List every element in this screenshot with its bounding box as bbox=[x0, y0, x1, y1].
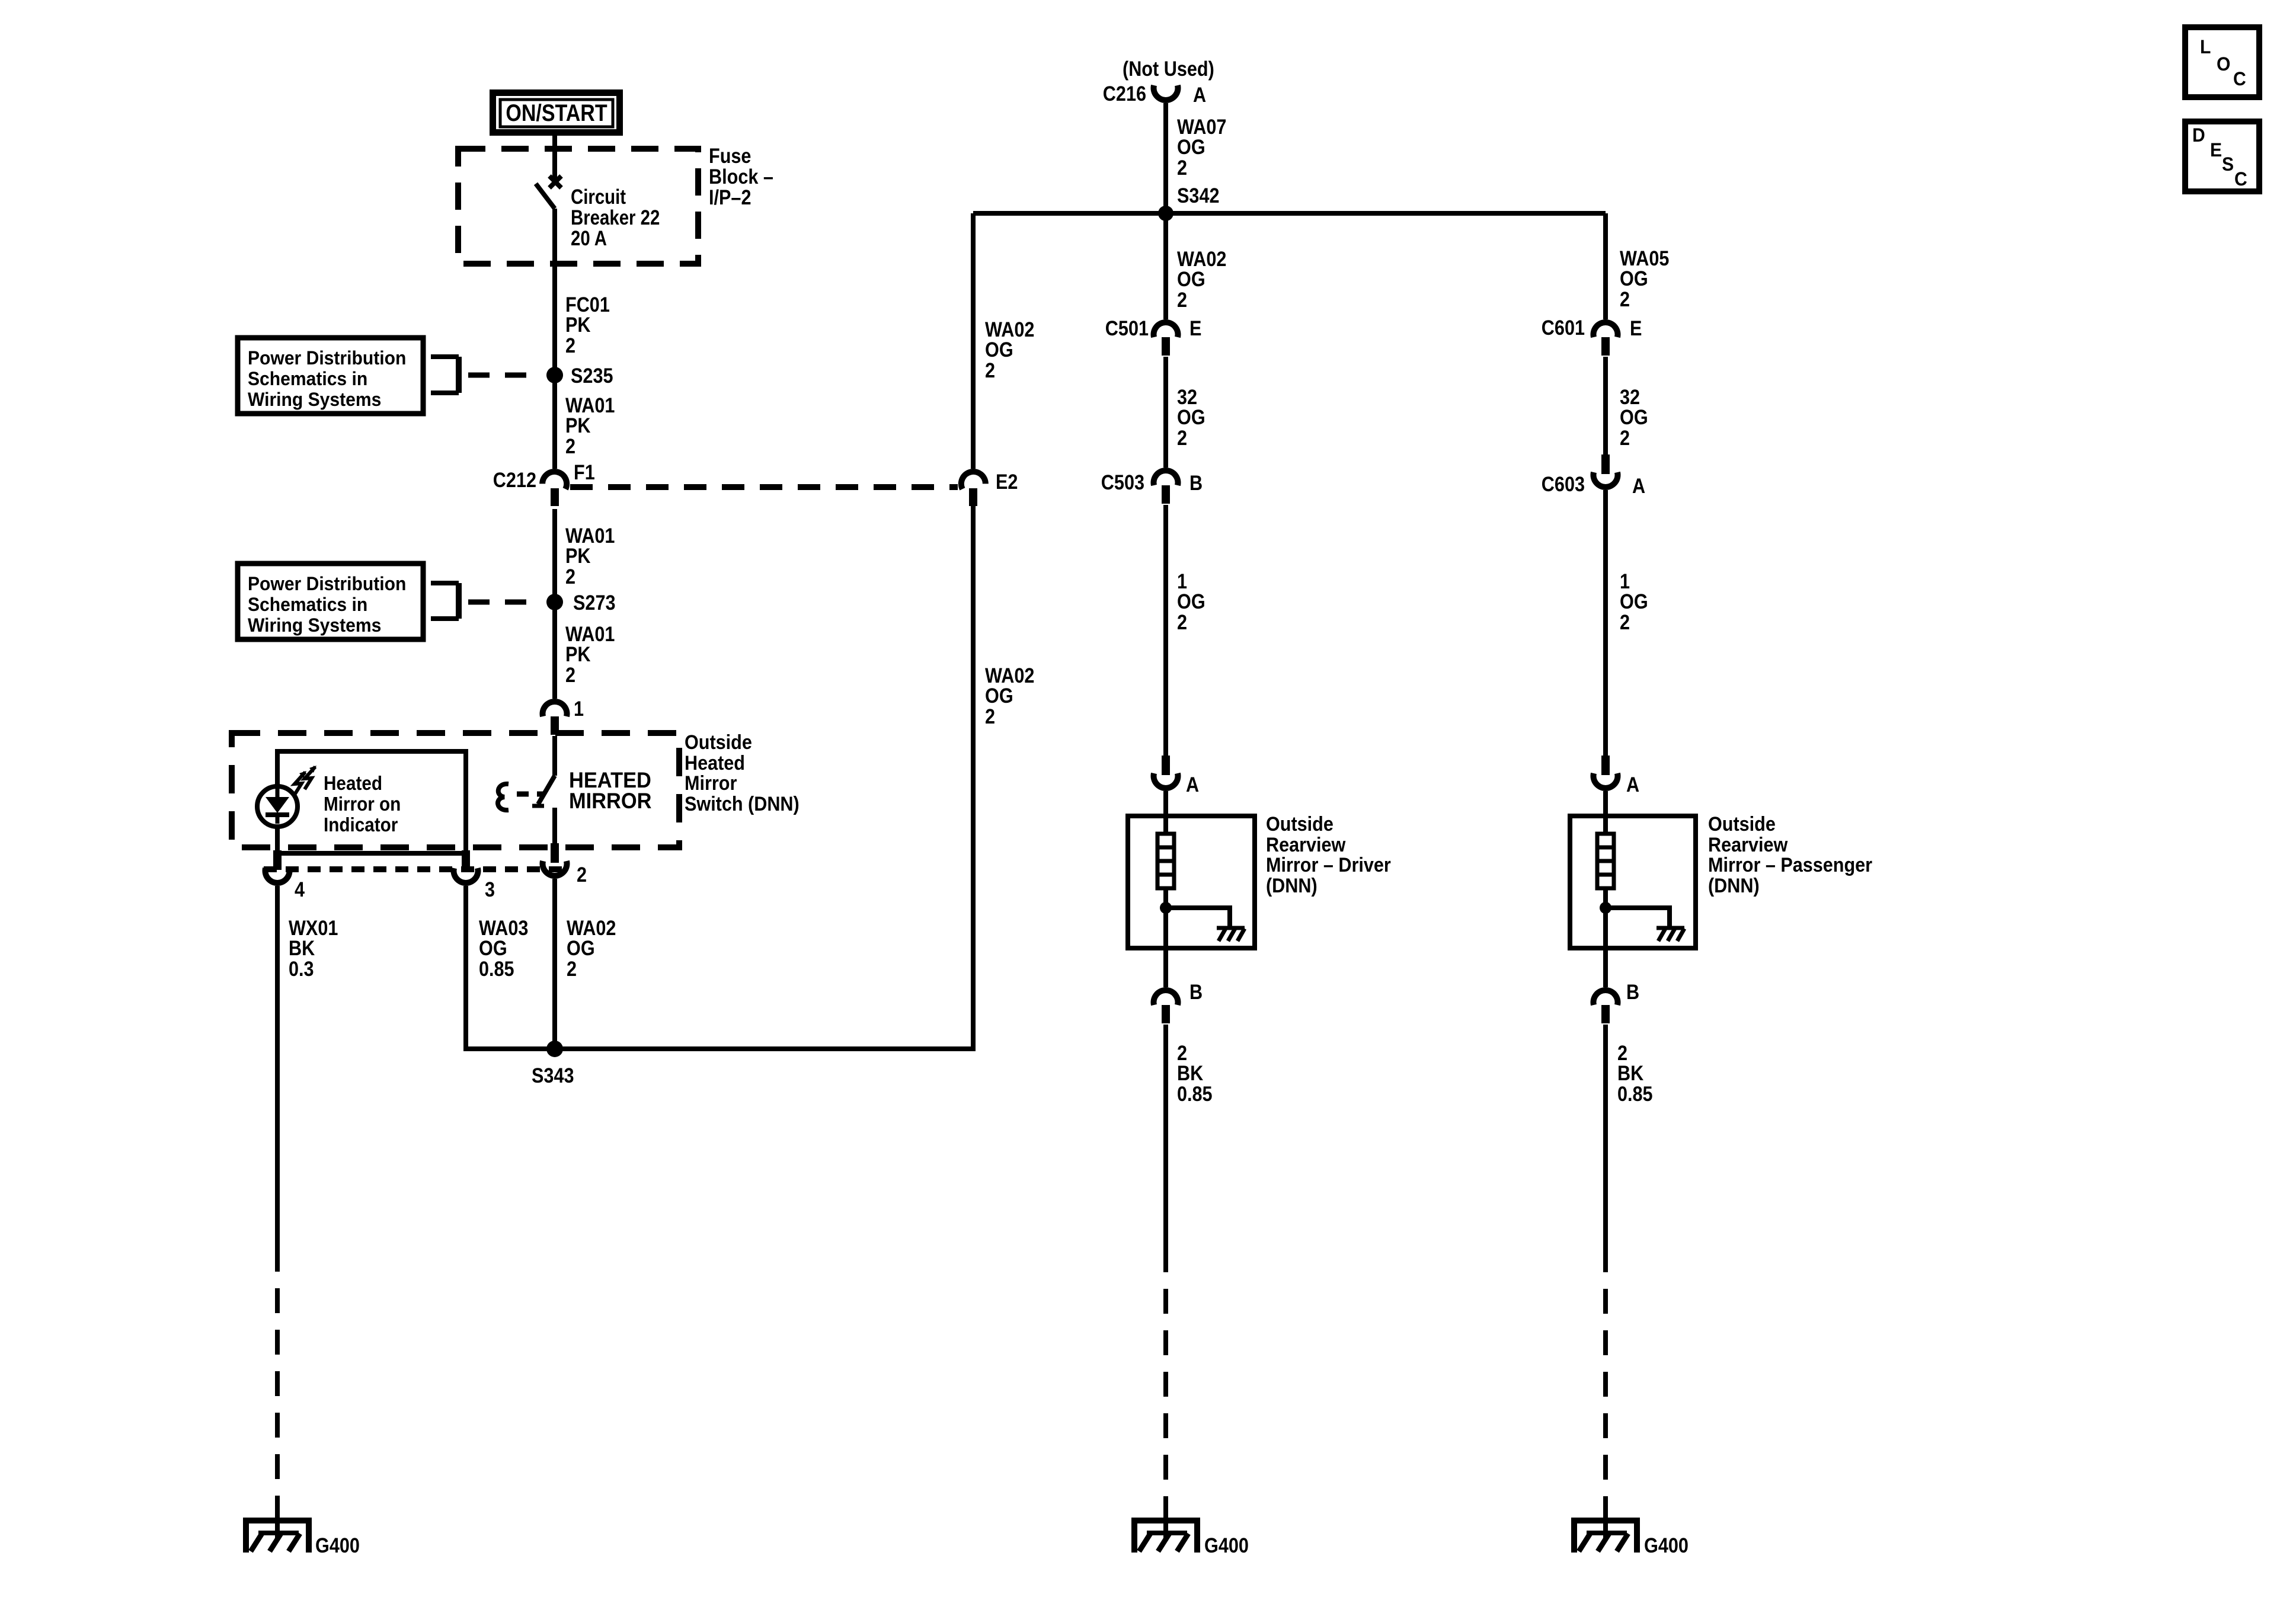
svg-text:L: L bbox=[2200, 36, 2211, 57]
svg-text:0.85: 0.85 bbox=[479, 957, 514, 980]
svg-text:D: D bbox=[2192, 124, 2205, 146]
svg-text:OG: OG bbox=[567, 936, 595, 959]
svg-text:(DNN): (DNN) bbox=[1708, 875, 1760, 897]
svg-text:Mirror – Passenger: Mirror – Passenger bbox=[1708, 854, 1872, 876]
svg-text:2: 2 bbox=[567, 957, 577, 980]
svg-text:I/P–2: I/P–2 bbox=[709, 185, 751, 209]
svg-text:PK: PK bbox=[565, 642, 591, 665]
svg-text:MIRROR: MIRROR bbox=[569, 789, 652, 813]
svg-text:0.85: 0.85 bbox=[1177, 1082, 1213, 1105]
svg-text:S343: S343 bbox=[532, 1064, 574, 1087]
svg-text:G400: G400 bbox=[1644, 1534, 1689, 1557]
svg-text:B: B bbox=[1626, 980, 1639, 1003]
svg-text:OG: OG bbox=[1620, 267, 1648, 290]
svg-text:B: B bbox=[1189, 471, 1203, 494]
svg-text:Mirror – Driver: Mirror – Driver bbox=[1266, 854, 1391, 876]
svg-text:2: 2 bbox=[565, 434, 575, 457]
svg-text:Fuse: Fuse bbox=[709, 144, 751, 167]
svg-text:OG: OG bbox=[1177, 590, 1205, 613]
svg-text:E2: E2 bbox=[996, 470, 1018, 493]
svg-text:2: 2 bbox=[565, 663, 575, 686]
svg-text:4: 4 bbox=[295, 878, 305, 901]
svg-text:2: 2 bbox=[1177, 156, 1187, 179]
svg-text:Power Distribution: Power Distribution bbox=[248, 573, 406, 594]
svg-text:Mirror: Mirror bbox=[685, 772, 737, 795]
svg-text:Schematics in: Schematics in bbox=[248, 368, 367, 389]
svg-text:BK: BK bbox=[289, 936, 315, 959]
svg-text:Breaker 22: Breaker 22 bbox=[571, 206, 660, 229]
svg-text:Heated: Heated bbox=[324, 773, 382, 795]
svg-text:O: O bbox=[2217, 53, 2230, 75]
svg-text:OG: OG bbox=[1620, 405, 1648, 428]
svg-text:S273: S273 bbox=[573, 591, 616, 614]
svg-text:2: 2 bbox=[565, 565, 575, 588]
svg-text:C: C bbox=[2233, 68, 2246, 89]
svg-text:E: E bbox=[1189, 316, 1201, 340]
svg-text:2: 2 bbox=[577, 863, 587, 886]
svg-text:OG: OG bbox=[1177, 135, 1205, 158]
svg-text:PK: PK bbox=[565, 544, 591, 567]
svg-text:G400: G400 bbox=[315, 1534, 360, 1557]
svg-text:C501: C501 bbox=[1105, 316, 1149, 340]
svg-text:BK: BK bbox=[1177, 1061, 1203, 1084]
svg-text:C601: C601 bbox=[1542, 316, 1585, 339]
svg-text:BK: BK bbox=[1617, 1061, 1643, 1084]
svg-text:OG: OG bbox=[985, 684, 1013, 707]
svg-text:(Not Used): (Not Used) bbox=[1123, 57, 1214, 80]
svg-text:Heated: Heated bbox=[685, 752, 745, 774]
svg-text:B: B bbox=[1189, 980, 1203, 1003]
svg-text:A: A bbox=[1186, 773, 1199, 796]
svg-text:S342: S342 bbox=[1177, 184, 1220, 207]
svg-text:C503: C503 bbox=[1101, 470, 1144, 494]
svg-text:PK: PK bbox=[565, 414, 591, 437]
svg-text:E: E bbox=[1630, 316, 1642, 340]
svg-text:S235: S235 bbox=[571, 364, 613, 387]
svg-text:20 A: 20 A bbox=[571, 227, 607, 250]
svg-text:Outside: Outside bbox=[1708, 813, 1776, 836]
svg-text:OG: OG bbox=[1177, 267, 1205, 290]
svg-text:Switch (DNN): Switch (DNN) bbox=[685, 793, 800, 815]
svg-text:C603: C603 bbox=[1542, 472, 1585, 495]
svg-text:OG: OG bbox=[985, 338, 1013, 361]
svg-text:C216: C216 bbox=[1103, 82, 1146, 105]
svg-text:Indicator: Indicator bbox=[324, 814, 398, 836]
svg-text:Power Distribution: Power Distribution bbox=[248, 347, 406, 369]
svg-text:Outside: Outside bbox=[685, 731, 752, 754]
svg-text:2: 2 bbox=[1620, 287, 1630, 311]
svg-text:2: 2 bbox=[1620, 610, 1630, 633]
svg-text:S: S bbox=[2222, 153, 2234, 175]
svg-text:OG: OG bbox=[1177, 405, 1205, 428]
svg-text:Outside: Outside bbox=[1266, 813, 1334, 836]
svg-text:2: 2 bbox=[1620, 426, 1630, 449]
svg-text:Circuit: Circuit bbox=[571, 185, 626, 209]
svg-text:Block –: Block – bbox=[709, 165, 773, 188]
svg-text:0.85: 0.85 bbox=[1617, 1082, 1653, 1105]
svg-text:1: 1 bbox=[574, 697, 584, 720]
svg-text:0.3: 0.3 bbox=[289, 957, 314, 980]
svg-text:OG: OG bbox=[1620, 590, 1648, 613]
svg-text:2: 2 bbox=[1177, 426, 1187, 449]
svg-text:3: 3 bbox=[485, 878, 495, 901]
svg-text:A: A bbox=[1626, 773, 1639, 796]
svg-text:A: A bbox=[1193, 83, 1206, 106]
svg-text:2: 2 bbox=[985, 705, 995, 728]
svg-text:Mirror on: Mirror on bbox=[324, 793, 401, 815]
svg-text:C: C bbox=[2234, 168, 2247, 190]
svg-text:Wiring Systems: Wiring Systems bbox=[248, 614, 381, 636]
svg-text:2: 2 bbox=[985, 359, 995, 382]
svg-text:2: 2 bbox=[565, 334, 575, 357]
svg-text:Schematics in: Schematics in bbox=[248, 594, 367, 615]
svg-text:Wiring Systems: Wiring Systems bbox=[248, 389, 381, 410]
svg-text:ON/START: ON/START bbox=[506, 99, 607, 126]
svg-text:Rearview: Rearview bbox=[1266, 834, 1346, 856]
svg-text:Rearview: Rearview bbox=[1708, 834, 1788, 856]
svg-text:G400: G400 bbox=[1204, 1534, 1249, 1557]
svg-text:PK: PK bbox=[565, 313, 591, 336]
svg-text:C212: C212 bbox=[493, 468, 536, 491]
svg-text:F1: F1 bbox=[574, 460, 595, 484]
svg-text:OG: OG bbox=[479, 936, 507, 959]
svg-text:A: A bbox=[1632, 474, 1645, 497]
svg-text:2: 2 bbox=[1177, 610, 1187, 633]
svg-text:(DNN): (DNN) bbox=[1266, 875, 1318, 897]
svg-text:E: E bbox=[2210, 139, 2222, 161]
svg-text:2: 2 bbox=[1177, 288, 1187, 311]
